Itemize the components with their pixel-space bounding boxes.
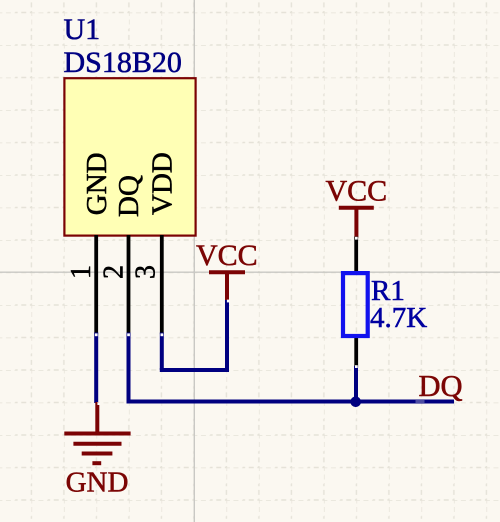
resistor R1 pin top bbox=[354, 237, 358, 274]
svg-text:2: 2 bbox=[99, 265, 130, 279]
wire DQ horizontal bbox=[127, 400, 455, 404]
svg-text:DS18B20: DS18B20 bbox=[64, 46, 182, 79]
pin 2 hotspot bbox=[127, 333, 130, 336]
pin 3 stub bbox=[160, 235, 164, 334]
svg-text:DQ: DQ bbox=[419, 369, 463, 403]
svg-text:VDD: VDD bbox=[146, 152, 178, 215]
svg-text:DQ: DQ bbox=[113, 175, 145, 217]
component U1 body bbox=[64, 78, 195, 235]
wire pin3 horizontal bbox=[160, 368, 227, 372]
pin 3 hotspot bbox=[161, 333, 164, 336]
wire pin2 vertical bbox=[127, 333, 131, 402]
node VCC pin3 hotspot bbox=[227, 300, 230, 303]
resistor R1 pin bottom bbox=[354, 336, 358, 368]
svg-text:GND: GND bbox=[66, 466, 129, 498]
svg-text:3: 3 bbox=[131, 265, 162, 279]
svg-text:4.7K: 4.7K bbox=[370, 302, 427, 334]
pin 1 hotspot bbox=[95, 333, 98, 336]
node GND wire hotspot bbox=[97, 402, 100, 405]
power port VCC near pin 3 bbox=[209, 272, 245, 300]
pin 1 stub bbox=[94, 235, 98, 334]
svg-text:VCC: VCC bbox=[196, 239, 258, 272]
svg-text:GND: GND bbox=[81, 152, 113, 215]
ground symbol bbox=[64, 402, 130, 463]
pin 2 stub bbox=[127, 235, 131, 334]
wire pin1 to ground bbox=[94, 333, 98, 404]
svg-text:1: 1 bbox=[66, 265, 97, 279]
svg-text:VCC: VCC bbox=[326, 174, 388, 207]
node R1 top hotspot bbox=[355, 237, 358, 240]
resistor R1 body bbox=[343, 273, 368, 336]
wire pin3 up to VCC bbox=[225, 299, 229, 372]
net label DQ attach tick bbox=[416, 400, 425, 403]
power port VCC above R1 bbox=[339, 208, 374, 238]
wire R1 to DQ net bbox=[354, 366, 358, 402]
junction dot bbox=[350, 397, 361, 408]
svg-text:U1: U1 bbox=[64, 13, 101, 46]
node R1 bottom hotspot bbox=[355, 365, 358, 368]
wire pin3 vertical bbox=[160, 333, 164, 371]
